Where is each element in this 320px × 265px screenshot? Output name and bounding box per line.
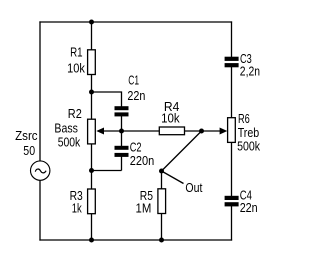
svg-text:Bass: Bass — [54, 120, 78, 135]
svg-text:22n: 22n — [127, 88, 145, 103]
svg-text:R6: R6 — [238, 111, 250, 126]
svg-text:2,2n: 2,2n — [240, 63, 260, 78]
svg-text:500k: 500k — [58, 134, 81, 149]
svg-text:R2: R2 — [68, 106, 82, 121]
svg-text:50: 50 — [23, 143, 35, 158]
svg-text:1k: 1k — [72, 200, 82, 215]
svg-text:10k: 10k — [161, 111, 180, 126]
svg-text:1M: 1M — [136, 200, 152, 215]
svg-text:220n: 220n — [130, 153, 155, 168]
svg-text:10k: 10k — [67, 60, 85, 75]
svg-text:500k: 500k — [237, 138, 260, 153]
svg-text:Zsrc: Zsrc — [15, 128, 38, 143]
svg-text:22n: 22n — [240, 200, 258, 215]
svg-text:C1: C1 — [128, 72, 139, 87]
svg-text:R1: R1 — [70, 45, 83, 60]
svg-text:Out: Out — [185, 180, 202, 195]
